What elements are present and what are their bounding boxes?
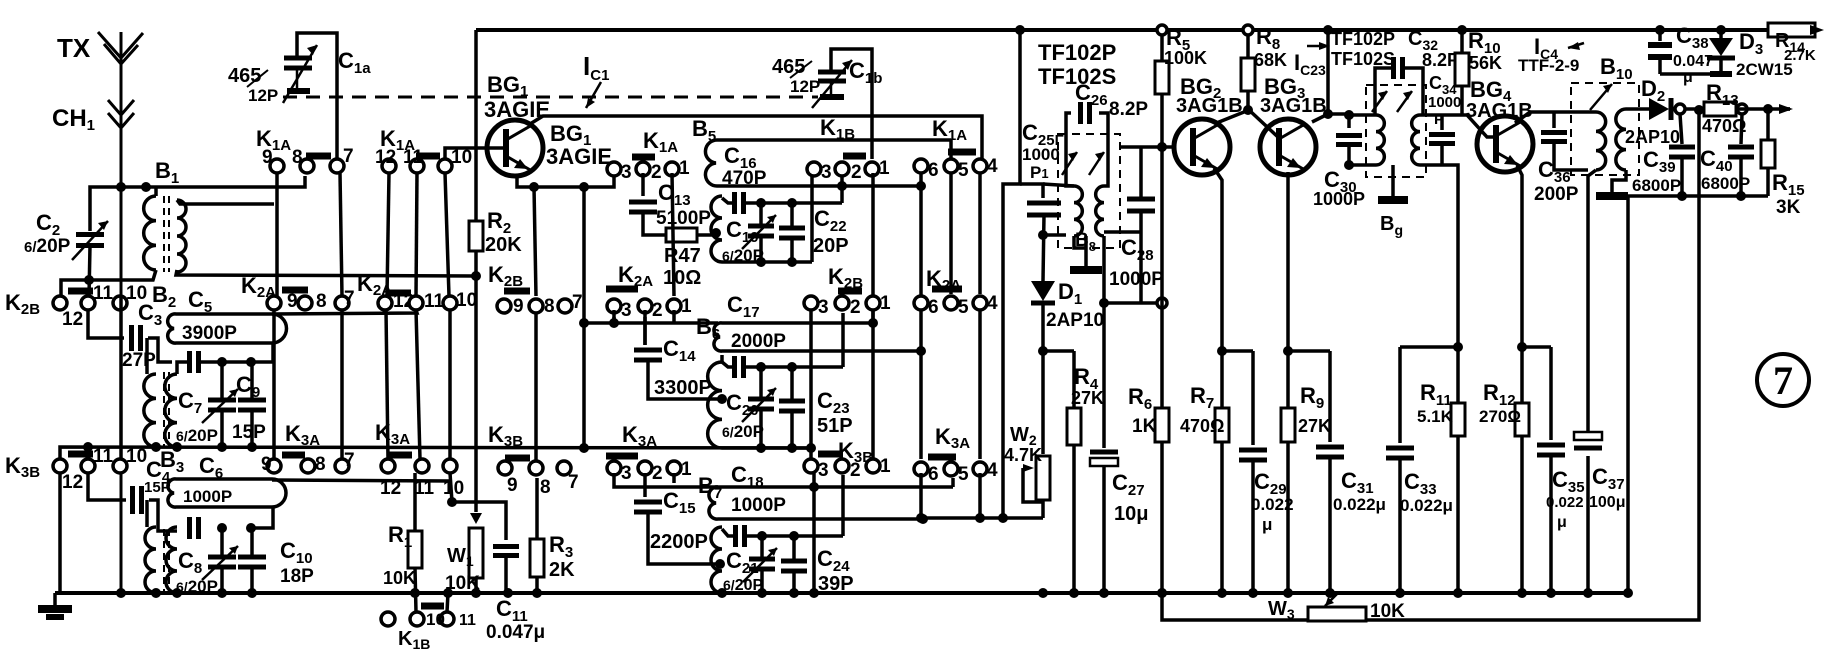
svg-text:6/20P: 6/20P	[24, 236, 71, 257]
svg-text:TX: TX	[57, 33, 91, 63]
wire BG1 collector to contact4	[530, 116, 982, 159]
wire coupling to caps	[201, 360, 252, 364]
svg-text:1: 1	[880, 456, 891, 477]
wire C6 top to contact10 node	[272, 480, 452, 481]
capacitor C20 6/20P variable	[759, 367, 763, 397]
wire C32 right	[1404, 68, 1423, 115]
wire C5 top to contact11	[272, 310, 417, 314]
capacitor C24 39P	[792, 536, 796, 559]
coil T2 primary	[1376, 115, 1384, 165]
capacitor C39 6800P	[1680, 114, 1682, 144]
wire detector ground bus	[1628, 194, 1768, 198]
capacitor C10 18P	[250, 528, 254, 555]
svg-text:5100P: 5100P	[656, 208, 711, 229]
wire BG3 collector	[1312, 114, 1349, 122]
svg-text:4.7K: 4.7K	[1004, 445, 1042, 465]
wire into box	[1043, 184, 1074, 186]
svg-text:4: 4	[987, 156, 998, 177]
svg-text:6: 6	[928, 160, 939, 181]
svg-text:1000P: 1000P	[1109, 269, 1164, 290]
wire contact11 to C3	[88, 310, 124, 338]
wire contact11 to C4	[88, 473, 126, 500]
potentiometer W3 10K	[1308, 607, 1366, 621]
svg-text:20P: 20P	[813, 235, 849, 257]
wire contact10 to wiper node	[450, 473, 452, 502]
svg-text:6800P: 6800P	[1632, 176, 1681, 195]
wire left box edge / R2 line	[474, 30, 478, 276]
svg-text:6/20P: 6/20P	[722, 422, 764, 441]
capacitor C29 0.022u	[1222, 349, 1253, 353]
svg-text:3AG1B: 3AG1B	[1176, 95, 1243, 117]
wire T2 secondary bottom down	[1442, 165, 1458, 347]
coil B10 primary	[1596, 112, 1606, 170]
svg-text:3K: 3K	[1776, 197, 1801, 218]
svg-text:2000P: 2000P	[731, 331, 786, 352]
svg-text:2.7K: 2.7K	[1784, 47, 1816, 64]
resistor R15 3K	[1766, 109, 1770, 140]
wire contact3 to C17	[612, 310, 616, 323]
inductor B5 / C16 470P loop	[705, 140, 951, 186]
junction contact11 feed	[84, 275, 94, 285]
svg-text:4: 4	[987, 460, 998, 481]
wire D1 to R4	[1043, 349, 1074, 353]
wire rail to K1B contact11	[447, 593, 448, 612]
capacitor coupling B6 top	[722, 362, 733, 367]
svg-text:9: 9	[262, 147, 273, 168]
svg-text:9: 9	[513, 296, 524, 317]
junction contact11 row3	[83, 442, 93, 452]
capacitor C23 51P	[790, 367, 794, 399]
svg-text:10: 10	[426, 610, 445, 629]
wire contact1 row1-row2	[871, 173, 875, 296]
wire contact10 row2-row3	[448, 310, 452, 459]
core B3	[163, 529, 165, 595]
wire C5 bottom to caps	[252, 343, 273, 362]
wire tank top B6	[745, 365, 843, 369]
junction	[579, 182, 589, 192]
capacitor C26 8.2P	[1081, 102, 1090, 124]
svg-text:100K: 100K	[1164, 48, 1207, 68]
chevrons CH1	[108, 100, 134, 128]
wire to C17 top	[584, 321, 718, 325]
wire rail to T2	[1326, 30, 1330, 114]
svg-text:7: 7	[1773, 358, 1793, 403]
svg-text:3300P: 3300P	[654, 377, 712, 399]
svg-text:27K: 27K	[1298, 416, 1331, 436]
wire contact3 row2-row3 column	[809, 310, 813, 459]
svg-text:3: 3	[621, 463, 632, 484]
junction C22 tank	[837, 181, 847, 191]
svg-text:9: 9	[507, 475, 518, 496]
svg-text:3AG1B: 3AG1B	[1260, 95, 1327, 117]
wire W3 AGC line	[1162, 593, 1308, 620]
ground Bg	[1391, 165, 1395, 196]
junction C18 bottom	[918, 514, 928, 524]
svg-text:7: 7	[343, 146, 354, 167]
capacitor C27 10u electrolytic	[1102, 303, 1106, 448]
wire contact6 row2-row3	[919, 310, 923, 459]
capacitor C30 1000P	[1344, 110, 1354, 120]
wire C26 right	[1099, 113, 1108, 186]
wire to B6 and row3 feeder	[582, 187, 586, 448]
resistor R1 10K	[413, 473, 417, 531]
dashed gang line	[283, 96, 818, 99]
svg-text:56K: 56K	[1469, 53, 1502, 73]
svg-text:3AGIE: 3AGIE	[546, 144, 612, 169]
svg-text:3: 3	[821, 162, 832, 183]
wire B3 secondary top	[172, 529, 177, 533]
svg-text:8: 8	[540, 477, 551, 498]
tank coil B5 secondary	[711, 196, 722, 262]
wire to C25	[1020, 184, 1043, 198]
svg-text:11: 11	[93, 283, 114, 304]
svg-text:6: 6	[928, 297, 939, 318]
resistor R5 100K	[1160, 30, 1164, 61]
capacitor C22 20P	[790, 203, 794, 226]
svg-text:R47: R47	[664, 245, 701, 267]
wire contact3 stub	[612, 317, 616, 323]
svg-text:0.022μ: 0.022μ	[1333, 495, 1386, 514]
svg-text:270Ω: 270Ω	[1479, 407, 1521, 426]
svg-text:20K: 20K	[485, 234, 522, 256]
svg-text:1K: 1K	[1132, 416, 1157, 437]
wire contact10 row1-row2	[445, 173, 449, 296]
svg-text:12P: 12P	[248, 86, 278, 105]
wire W2 bottom bus	[921, 516, 1043, 520]
junction C17 top left	[579, 318, 589, 328]
top supply rail	[476, 28, 1768, 32]
junction coil tap R47	[711, 228, 721, 238]
ground B10	[1612, 170, 1626, 193]
resistor R2 20K	[469, 221, 483, 251]
row3 feeder wire	[60, 447, 811, 458]
svg-text:3: 3	[818, 460, 829, 481]
transistor BG1 3AGIE	[487, 120, 543, 176]
IF transformer T2 dashed box	[1366, 85, 1426, 177]
svg-text:12: 12	[375, 147, 396, 168]
capacitor C4 15P	[133, 486, 142, 514]
wire to contact8 row2	[534, 187, 536, 296]
wire contact3 to C18	[614, 473, 718, 487]
wire osc node	[1104, 301, 1162, 305]
wire contact1 row3 stub to C18	[672, 473, 676, 483]
wire tank bottom to contact3	[810, 176, 814, 262]
coil B1 secondary	[177, 200, 186, 272]
resistor R11 5.1K	[1456, 347, 1460, 403]
transistor BG4 3AG1B	[1477, 116, 1533, 172]
resistor R9 27K	[1286, 351, 1290, 408]
wire antenna to B1/contact8	[90, 176, 305, 231]
resistor R13 470ohm	[1673, 107, 1704, 111]
wire W3 to detector output	[1366, 110, 1699, 620]
svg-text:51P: 51P	[817, 415, 853, 437]
svg-text:0.047μ: 0.047μ	[486, 622, 545, 643]
wire B1 left top	[154, 187, 158, 196]
wire contact1 G3 row1-row2	[672, 173, 674, 296]
tank coil B7 secondary	[711, 527, 722, 593]
svg-text:8: 8	[315, 454, 326, 475]
junction	[246, 523, 256, 533]
capacitor C32 8.2P	[1394, 57, 1403, 79]
ground rail	[55, 591, 1630, 595]
resistor R14 2.7K	[1768, 23, 1815, 37]
capacitor C15 2200P	[643, 473, 647, 497]
svg-text:15P: 15P	[232, 422, 266, 443]
capacitor C35 0.022u	[1522, 345, 1551, 349]
wire tank top B7	[746, 534, 843, 538]
IF transformer TF102P/TF102S dashed box	[1058, 134, 1120, 248]
svg-text:8: 8	[544, 296, 555, 317]
capacitor C3 27P	[132, 325, 141, 351]
wire tank top to contact2	[840, 176, 844, 203]
svg-text:9: 9	[261, 454, 272, 475]
transformer B10 dashed box	[1571, 83, 1639, 175]
svg-text:10: 10	[451, 147, 472, 168]
svg-text:6/20P: 6/20P	[176, 426, 218, 445]
wire contact3 row3 to rail	[812, 472, 816, 593]
capacitor C36 200P	[1552, 112, 1556, 128]
svg-text:0.022: 0.022	[1546, 494, 1584, 511]
svg-text:6800P: 6800P	[1701, 174, 1750, 193]
potentiometer W2 4.7K	[1036, 456, 1050, 500]
svg-text:18P: 18P	[280, 566, 314, 587]
svg-text:2AP10: 2AP10	[1625, 127, 1680, 147]
wire tank top to contact2 row3	[841, 475, 845, 536]
wire T1 primary bottom to C25 line	[1043, 233, 1066, 237]
wire contact1 row2-row3	[871, 310, 875, 459]
capacitor C37 100u electrolytic	[1574, 446, 1602, 451]
capacitor C33 0.022u	[1400, 345, 1458, 349]
svg-text:TF102P: TF102P	[1331, 29, 1395, 49]
capacitor C9 15P	[250, 362, 254, 398]
wire W2 wiper loop	[1023, 468, 1043, 502]
wire R2 down to W1 wiper	[474, 276, 478, 502]
junction coil tap C15	[715, 559, 725, 569]
wire C26 left	[1066, 113, 1074, 186]
resistor R4 27K	[1072, 351, 1076, 408]
wire contact8 row2-row3 mid	[534, 314, 538, 462]
output arrow right	[1763, 104, 1773, 114]
wire B5 top to contact5	[949, 140, 953, 159]
capacitor C2 6/20P variable	[76, 235, 104, 246]
svg-text:465: 465	[228, 65, 261, 87]
svg-text:1000P: 1000P	[731, 495, 786, 516]
tank bottom wire B5	[722, 260, 812, 264]
potentiometer W1 10K	[469, 528, 483, 578]
resistor R10 56K	[1460, 30, 1464, 53]
svg-text:10μ: 10μ	[1114, 503, 1148, 525]
main ground symbol	[53, 593, 57, 606]
junction D1 bottom	[1038, 346, 1048, 356]
ground B8	[1074, 236, 1086, 248]
svg-text:10K: 10K	[383, 568, 416, 588]
wire tank top	[745, 201, 842, 205]
inductor C6 1000P	[168, 479, 286, 507]
svg-text:TF102S: TF102S	[1331, 49, 1395, 69]
capacitor C28 1000P	[1139, 147, 1143, 199]
svg-text:2: 2	[850, 297, 861, 318]
svg-text:TF102P: TF102P	[1038, 40, 1116, 65]
wire BG4 collector	[1515, 112, 1581, 123]
wire base BG1 from contact10	[445, 148, 506, 159]
svg-text:4: 4	[987, 293, 998, 314]
wire osc left	[1003, 30, 1020, 518]
wire BG1 emitter	[517, 175, 614, 187]
diode D1 2AP10	[1031, 281, 1055, 301]
svg-text:3: 3	[818, 297, 829, 318]
svg-text:27K: 27K	[1071, 388, 1104, 408]
wire antenna row2-row3	[119, 296, 123, 459]
svg-text:μ: μ	[1557, 514, 1567, 531]
resistor R8 68K	[1246, 30, 1250, 58]
wire contact11 row1-row2	[416, 173, 417, 296]
svg-text:12P: 12P	[790, 77, 820, 96]
capacitor C19 6/20P variable	[759, 203, 763, 224]
wire contact12 row2-row3	[386, 310, 388, 459]
tuning arrows T2	[1372, 91, 1412, 112]
wire BG3 emitter to R9	[1286, 172, 1290, 351]
wire D1 to W2	[1041, 351, 1045, 454]
diode D3 2CW15 zener	[1719, 30, 1723, 38]
svg-text:2: 2	[652, 463, 663, 484]
antenna TX	[120, 32, 123, 595]
capacitor C40 6800P	[1741, 114, 1742, 144]
capacitor B3 coupling	[190, 517, 199, 539]
coil B1 primary	[144, 196, 156, 270]
svg-text:8: 8	[316, 291, 327, 312]
wire contact11 row2-row3	[416, 310, 420, 459]
svg-text:68K: 68K	[1254, 50, 1287, 70]
wire C6 bottom to caps	[252, 507, 273, 528]
junction emitter	[529, 182, 539, 192]
svg-text:12: 12	[62, 472, 83, 493]
capacitor coupling B5 top	[722, 198, 733, 203]
wire C3 to B2	[148, 338, 172, 362]
svg-text:P1: P1	[1030, 163, 1049, 182]
svg-text:12: 12	[62, 309, 83, 330]
svg-text:1: 1	[681, 459, 692, 480]
switch K1B bottom contacts	[381, 612, 395, 626]
capacitor C1a 465/12P variable	[297, 33, 337, 159]
svg-text:1000P: 1000P	[1313, 189, 1365, 209]
coil T1 primary	[1074, 186, 1082, 236]
svg-text:5: 5	[958, 160, 969, 181]
tank coil B6 secondary	[708, 362, 722, 448]
wire secondary bottom down	[1102, 236, 1106, 303]
svg-text:8: 8	[292, 147, 303, 168]
page number 7 circle	[1757, 354, 1809, 406]
wire C18 top to contact5	[951, 478, 955, 487]
resistor R3 2K	[535, 478, 539, 539]
tank bottom wire B6	[722, 446, 811, 450]
wire contact6 below row3	[919, 473, 923, 518]
wire contact4 row1-row2	[978, 173, 982, 294]
resistor R7 470ohm	[1220, 351, 1224, 408]
resistor R12 270ohm	[1520, 347, 1524, 403]
wire BG2 base	[1120, 145, 1174, 149]
wire C17 to contact1	[871, 311, 875, 323]
wire contact12 row1-row2	[387, 173, 389, 296]
svg-text:2AP10: 2AP10	[1046, 310, 1104, 331]
wire R8 to BG3 base	[1249, 110, 1279, 138]
svg-text:1000: 1000	[1022, 145, 1060, 164]
svg-text:1000: 1000	[1428, 94, 1461, 111]
svg-text:200P: 200P	[1534, 184, 1579, 205]
junction C9 top	[246, 357, 256, 367]
svg-text:3900P: 3900P	[182, 323, 237, 344]
resistor R47 10ohm	[666, 228, 697, 242]
svg-text:μ: μ	[1683, 69, 1693, 86]
wire contact2 to C14	[643, 317, 647, 345]
svg-text:11: 11	[459, 612, 476, 629]
svg-text:470P: 470P	[722, 168, 767, 189]
wire B2 secondary top	[177, 362, 191, 374]
svg-text:3: 3	[621, 300, 632, 321]
svg-text:2200P: 2200P	[650, 531, 708, 553]
wire contact4 below row3	[978, 473, 982, 518]
junction antenna	[116, 182, 126, 192]
svg-text:10: 10	[456, 290, 477, 311]
svg-text:2: 2	[851, 162, 862, 183]
svg-text:7: 7	[344, 288, 355, 309]
svg-text:8.2P: 8.2P	[1109, 99, 1148, 120]
svg-text:3: 3	[621, 162, 632, 183]
wire BG4 emitter	[1517, 165, 1522, 347]
wire tank top to contact2 row2	[841, 313, 845, 367]
wire C32 left	[1375, 68, 1392, 115]
wire contact9 row2-row3	[272, 310, 276, 459]
capacitor C25 1000P	[1027, 203, 1061, 215]
capacitor C38 0.047u	[1658, 30, 1662, 41]
svg-text:5.1K: 5.1K	[1417, 407, 1454, 426]
junction C17 top	[868, 318, 878, 328]
transistor BG3 3AG1B	[1260, 119, 1316, 175]
wire contact6 down	[919, 173, 923, 296]
wire B1 primary to contact12	[61, 270, 156, 296]
wire BG2 emitter to R7	[1214, 168, 1222, 351]
svg-text:8.2P: 8.2P	[1422, 50, 1459, 70]
svg-text:39P: 39P	[818, 573, 854, 595]
wire contact5 row1-row2	[949, 173, 953, 294]
capacitor C21 6/20P variable	[760, 536, 764, 557]
core B2	[163, 372, 165, 447]
capacitor B2 coupling	[190, 351, 199, 373]
junction R2 bottom	[471, 271, 481, 281]
junction top rail	[1015, 25, 1025, 35]
capacitor C1b 465/12P variable	[831, 49, 872, 159]
svg-text:7: 7	[344, 450, 355, 471]
inductor C5 3900P	[168, 314, 287, 343]
wire BG4 base	[1442, 115, 1496, 137]
wire C28 to secondary bottom	[1104, 230, 1141, 234]
wire contact1 G5 stub to C17	[672, 310, 676, 323]
wire contact7 row2-row3	[340, 310, 344, 459]
svg-text:2: 2	[850, 460, 861, 481]
junction coil tap C14	[717, 394, 727, 404]
svg-text:6/20P: 6/20P	[722, 246, 764, 265]
svg-text:TTF-2-9: TTF-2-9	[1518, 56, 1579, 75]
wire C38 D3 link	[1660, 72, 1721, 76]
junction C17 bottom	[916, 346, 926, 356]
wire B1 secondary tap	[177, 200, 274, 204]
resistor R6 1K	[1160, 303, 1164, 408]
svg-text:5: 5	[958, 464, 969, 485]
wire contact12 row3 to rail	[58, 473, 62, 593]
transistor BG2 3AG1B	[1174, 119, 1230, 175]
wire detector bus to rail	[1626, 196, 1630, 593]
svg-text:5: 5	[958, 297, 969, 318]
junction	[141, 182, 151, 192]
